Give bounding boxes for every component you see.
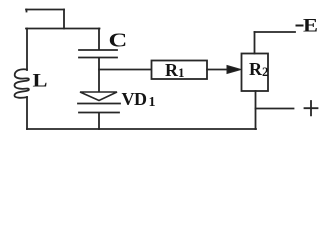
svg-text:D: D [134, 89, 147, 109]
wire R2 top lead [254, 32, 256, 54]
wire diode bottom lead [98, 113, 100, 129]
wire to -E terminal [255, 31, 296, 33]
wire left vertical lower [26, 97, 28, 129]
arrowhead into R2 [227, 66, 241, 74]
wire arrow R1 to R2 [207, 69, 228, 71]
wire left vertical upper [26, 29, 28, 71]
capacitor C bottom plate [79, 57, 117, 59]
resistor R1 box [152, 61, 208, 80]
svg-text:E: E [303, 15, 318, 36]
capacitor C top plate [79, 49, 117, 51]
wire bottom rail [27, 128, 256, 130]
wire node to R1 [99, 69, 151, 71]
diode VD1 varicap bar [79, 112, 119, 114]
wire stub tap vertical [63, 10, 65, 29]
svg-text:1: 1 [149, 95, 156, 110]
wire R2 bottom lead [255, 91, 257, 129]
wire to + terminal [256, 108, 294, 110]
wire top stub [26, 9, 64, 11]
svg-text:V: V [122, 89, 135, 109]
diode VD1 triangle [80, 92, 117, 101]
svg-text:C: C [109, 29, 128, 51]
resistor R2 box [242, 54, 269, 92]
wire capacitor to diode [98, 58, 100, 92]
diode VD1 cathode bar [78, 103, 120, 105]
capacitor C top lead [98, 29, 100, 50]
minus sign of -E [296, 25, 304, 27]
wire stub left tick [26, 10, 28, 12]
plus sign + [305, 101, 318, 115]
svg-text:L: L [33, 70, 48, 91]
inductor L coil [14, 69, 28, 97]
wire top rail [26, 28, 100, 30]
